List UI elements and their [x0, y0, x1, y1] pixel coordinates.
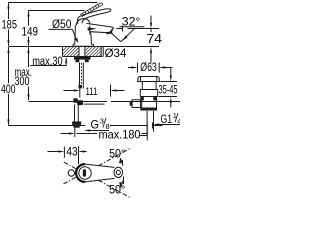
cartridge dome [76, 19, 90, 26]
pop-up waste: O63 dimension [128, 67, 132, 69]
extension line top (lever raised level) [9, 2, 98, 4]
svg-text:149: 149 [22, 25, 39, 39]
swivel arc lower with arrow [121, 180, 124, 187]
lower hose to G3/8 [74, 105, 76, 122]
counter top line [9, 46, 160, 48]
dimension max.180 [74, 127, 76, 137]
counter left edge [62, 47, 64, 57]
supply level datum line [29, 101, 108, 103]
top view: faucet base inner rim [79, 167, 91, 179]
spout tip bevel [109, 27, 114, 33]
pop-up rod plug [132, 100, 140, 108]
svg-text:max.180: max.180 [99, 128, 141, 142]
svg-text:3: 3 [100, 116, 104, 125]
top view: dimension 43 [48, 151, 59, 153]
top view: pull rod knob [68, 170, 74, 176]
datum tick at tailpipe [152, 123, 154, 129]
svg-text:Ø34: Ø34 [105, 46, 127, 60]
arc tick upper [122, 160, 124, 165]
dimension 35-45 [161, 81, 177, 83]
svg-text:35-45: 35-45 [159, 85, 178, 97]
mounting washer and nut [74, 57, 91, 60]
waste flange [138, 77, 159, 83]
waste neck [141, 82, 143, 90]
svg-text:111: 111 [86, 86, 98, 98]
svg-text:Ø63: Ø63 [140, 62, 157, 74]
svg-text:74: 74 [147, 32, 163, 46]
dimension 149 line [28, 11, 30, 26]
svg-text:50°: 50° [109, 182, 125, 196]
waste tailpipe [146, 111, 148, 137]
top view: spout tip [114, 167, 123, 177]
swivel arc upper with arrow [120, 158, 123, 165]
svg-text:43: 43 [66, 145, 78, 159]
hose elbow fitting [73, 98, 77, 102]
faucet shank through counter [78, 47, 80, 58]
faucet body pillar and base [73, 25, 93, 46]
flow arrow in spout [88, 27, 97, 30]
svg-text:185: 185 [2, 18, 18, 32]
label G3/8 with underline leader [85, 117, 110, 130]
top view: extension from 43 tick [78, 158, 80, 165]
waste body [141, 97, 143, 108]
svg-text:300: 300 [15, 74, 30, 88]
threaded rod [79, 63, 81, 89]
faucet phantom raised lever (hatched) [80, 3, 103, 17]
spout level extension line [117, 28, 123, 30]
aerator [106, 31, 113, 34]
waste clamp nut [140, 90, 157, 97]
svg-text:50°: 50° [109, 146, 125, 160]
swivel axis line lower [64, 162, 76, 169]
horizontal hose [84, 103, 105, 105]
top view: faucet base bold arc [76, 164, 85, 182]
dimension 185 line [8, 3, 10, 20]
dimension 74 [150, 16, 152, 24]
G3/8 union nut [72, 122, 81, 125]
top view: lever bar [83, 169, 86, 176]
extension line lever rest level [29, 10, 85, 12]
dimension 400 line [8, 47, 10, 83]
water jet lines 32deg [110, 32, 121, 42]
faucet lever handle (rest) [77, 9, 110, 24]
dimension max.300 line [28, 47, 30, 67]
counter hatching [57, 46, 110, 57]
svg-text:4: 4 [177, 116, 180, 125]
spout underside [90, 32, 109, 35]
spout top edge [87, 23, 114, 27]
counter right edge [100, 47, 102, 57]
swivel axis line upper [64, 177, 77, 184]
svg-text:G1: G1 [161, 112, 173, 126]
bottom datum line (400) [9, 125, 148, 127]
dimension 111 [64, 90, 75, 92]
counter bottom line [63, 56, 103, 58]
arc tick lower [123, 177, 125, 185]
top view: spout sides [85, 164, 115, 167]
